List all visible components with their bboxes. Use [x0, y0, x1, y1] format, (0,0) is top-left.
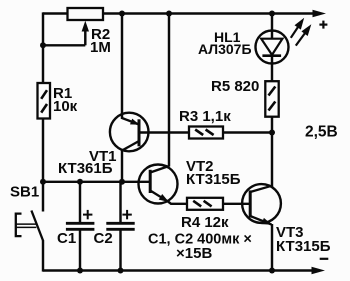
svg-text:×15В: ×15В [176, 245, 212, 262]
svg-text:С1: С1 [57, 230, 76, 247]
svg-text:КТ361Б: КТ361Б [58, 160, 113, 177]
svg-text:КТ315Б: КТ315Б [186, 171, 241, 188]
svg-text:10к: 10к [53, 98, 78, 115]
svg-text:R3 1,1к: R3 1,1к [179, 108, 231, 125]
svg-text:С2: С2 [94, 230, 113, 247]
svg-text:R4 12к: R4 12к [181, 214, 229, 231]
svg-text:АЛ307Б: АЛ307Б [198, 41, 252, 57]
svg-text:КТ315Б: КТ315Б [276, 238, 331, 255]
svg-text:2,5В: 2,5В [305, 123, 338, 140]
svg-text:1М: 1М [90, 39, 111, 56]
svg-text:R5 820: R5 820 [211, 78, 259, 95]
svg-text:SB1: SB1 [10, 184, 39, 201]
